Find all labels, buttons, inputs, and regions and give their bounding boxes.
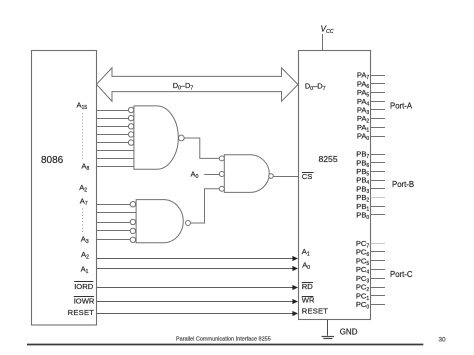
wire A10 — [97, 150, 134, 152]
IC 8255 — [299, 51, 371, 320]
wire A2 to 8255 A1 — [97, 256, 298, 261]
svg-text:CS: CS — [302, 172, 313, 181]
svg-text:8086: 8086 — [41, 155, 64, 166]
wire U2 output to U3 input 3 — [191, 189, 220, 223]
wire A5 — [97, 222, 130, 224]
svg-text:RESET: RESET — [68, 308, 95, 317]
wire IORD to RD — [97, 285, 298, 290]
wire A6 — [97, 212, 136, 214]
svg-text:8255: 8255 — [319, 154, 338, 164]
pin label RD (active low) — [302, 282, 313, 291]
footer rule — [27, 344, 423, 346]
wire A4 — [97, 230, 130, 232]
wire IOWR to WR — [97, 299, 298, 304]
wire A15 — [97, 110, 128, 112]
wire A13 — [97, 126, 128, 128]
svg-text:Parallel Communication Interfa: Parallel Communication Interface 8255 — [176, 337, 271, 343]
Port A pin labels PA7..PA0 — [357, 71, 370, 142]
data bus double arrow D0-D7 — [97, 68, 299, 102]
power VCC — [321, 25, 334, 51]
wire U1 output to U3 input 1 — [184, 138, 219, 158]
svg-text:D0–D7: D0–D7 — [305, 81, 326, 92]
wire A8 — [97, 166, 134, 168]
wire A0 to U3 input 2 — [204, 174, 219, 176]
svg-text:IOWR: IOWR — [74, 296, 95, 305]
wire A7 — [97, 204, 130, 206]
NAND gate U1 (A15-A8 decoder) — [128, 106, 184, 169]
wire A11 — [97, 142, 128, 144]
wire A9 — [97, 158, 134, 160]
dotted separator A7..A3 — [82, 209, 84, 234]
pin label CS (active low) — [302, 172, 314, 181]
Port B pin stubs — [371, 155, 385, 215]
svg-text:30: 30 — [439, 336, 447, 343]
dotted separator A15..A8 — [82, 113, 84, 160]
pin label IORD (active low) — [74, 282, 94, 291]
NAND gate U3 (chip-select combiner) — [219, 155, 273, 193]
pin label WR (active low) — [302, 295, 315, 304]
IC 8086 — [32, 51, 97, 326]
wire A12 — [97, 134, 128, 136]
svg-text:IORD: IORD — [74, 282, 94, 291]
Port B pin labels PB7..PB0 — [356, 150, 369, 221]
ground — [322, 320, 358, 339]
pin label IOWR (active low) — [74, 296, 95, 305]
svg-text:GND: GND — [340, 328, 358, 337]
wire A3 — [97, 239, 130, 241]
wire A1 to 8255 A0 — [97, 266, 298, 271]
svg-text:RD: RD — [302, 282, 313, 291]
Port C pin labels PC7..PC0 — [356, 239, 370, 311]
NAND gate U2 (A7-A3 decoder) — [130, 200, 190, 243]
svg-text:RESET: RESET — [302, 307, 328, 316]
svg-text:D0–D7: D0–D7 — [173, 81, 194, 92]
svg-text:Port-C: Port-C — [390, 270, 413, 279]
Port A pin stubs — [371, 76, 385, 137]
svg-text:Port-A: Port-A — [390, 102, 413, 111]
wire U3 output to CS — [273, 176, 298, 178]
svg-text:Port-B: Port-B — [392, 180, 414, 189]
wire RESET to RESET — [97, 311, 298, 316]
Port C pin stubs — [371, 244, 385, 305]
wire A14 — [97, 118, 128, 120]
